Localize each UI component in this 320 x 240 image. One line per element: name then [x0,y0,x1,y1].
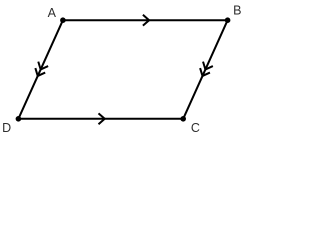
side DC (bottom) [18,118,183,120]
svg-text:B: B [233,4,241,18]
vertex dot C [180,116,186,122]
double parallel mark on BC [198,62,213,79]
double parallel mark on AD [33,62,48,79]
side BC (right) [183,20,227,119]
vertex dot A [60,17,66,23]
vertex dot B [225,17,231,23]
vertex dot D [16,116,22,122]
parallel mark arrow on DC [99,113,105,124]
side AD (left) [18,20,63,119]
svg-text:C: C [191,121,200,135]
svg-text:D: D [2,121,11,135]
parallel mark arrow on AB [143,15,149,26]
svg-text:A: A [48,6,57,20]
side AB (top) [63,19,228,21]
